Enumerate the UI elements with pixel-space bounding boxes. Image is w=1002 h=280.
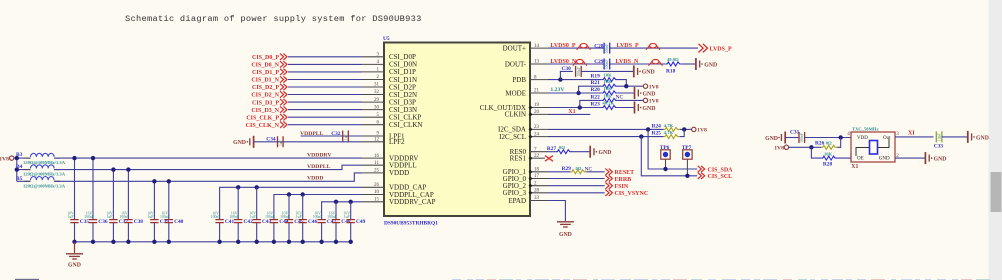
svg-text:21: 21 (534, 89, 540, 94)
svg-text:100nF: 100nF (120, 215, 130, 219)
wire SCL down to CIS_SCL (641, 137, 697, 176)
capacitor C44 (265, 211, 289, 242)
capacitor C38 (120, 170, 144, 242)
svg-text:C33: C33 (934, 143, 944, 149)
IC U5 DS90UB953TRHBRQ1 body (384, 43, 530, 217)
pin direction diamonds (529, 106, 533, 195)
svg-text:R18: R18 (666, 68, 676, 74)
svg-text:VDDDRV: VDDDRV (307, 153, 332, 159)
svg-text:25: 25 (374, 169, 380, 174)
capacitor C45 (280, 195, 304, 242)
svg-text:CIS_D0_N: CIS_D0_N (251, 63, 279, 69)
wire R25 up to 1V8 node (680, 129, 685, 136)
wire C31 to oscillator VDD (805, 137, 851, 139)
wire R23 to GND (618, 107, 634, 109)
svg-text:31: 31 (374, 83, 380, 88)
svg-text:100nF: 100nF (160, 215, 170, 219)
svg-text:C29: C29 (594, 59, 604, 65)
junction PDB branch (558, 77, 562, 81)
capacitor C40 (160, 181, 184, 242)
port CIS_SCL (698, 173, 732, 181)
svg-text:R24: R24 (652, 123, 662, 129)
svg-text:10K: 10K (604, 79, 613, 84)
svg-text:U5: U5 (383, 36, 390, 42)
svg-text:C41: C41 (225, 219, 235, 225)
svg-text:0Ω: 0Ω (559, 145, 565, 150)
svg-text:C34: C34 (266, 136, 276, 142)
resistor R20 (591, 86, 618, 95)
wire R27 to GND (572, 151, 589, 153)
svg-text:LVDS_P: LVDS_P (617, 43, 639, 49)
svg-text:C40: C40 (174, 219, 184, 225)
svg-text:CIS_D3_N: CIS_D3_N (251, 108, 279, 114)
IC right pin names (480, 44, 527, 204)
svg-text:CIS_D3_P: CIS_D3_P (252, 100, 279, 106)
svg-text:49.9Ω: 49.9Ω (667, 57, 679, 62)
svg-text:28: 28 (534, 189, 540, 194)
ground port left of C31 (765, 132, 785, 144)
svg-text:Out: Out (883, 136, 891, 141)
wire VDDPLL_CAP net (274, 195, 362, 220)
wire VDDDRV_CAP net (322, 202, 362, 220)
power port 1V8 left (0, 156, 14, 162)
capacitor C46 (295, 195, 317, 242)
svg-text:29: 29 (374, 98, 380, 103)
svg-text:CIS_SDA: CIS_SDA (708, 167, 734, 173)
svg-text:1uF: 1uF (279, 140, 283, 146)
ferrite bead B3 (16, 152, 66, 165)
wire ground bus under capacitors (75, 241, 351, 243)
svg-text:LVDS0_P: LVDS0_P (550, 43, 575, 49)
svg-text:B3: B3 (16, 152, 23, 158)
node CIS_D0_P (252, 54, 287, 61)
no connect X on RES1 (545, 156, 553, 162)
svg-text:TP7: TP7 (682, 145, 692, 151)
svg-text:VDDPLL: VDDPLL (307, 164, 331, 170)
svg-text:1uF: 1uF (147, 215, 153, 219)
capacitor C35 (67, 158, 89, 242)
svg-text:17: 17 (534, 174, 540, 179)
wire GPIO_1 with R29 (548, 171, 605, 173)
wire VDDDRV rail (54, 157, 362, 159)
wire CLKIN (548, 113, 590, 115)
svg-text:DOUT-: DOUT- (505, 60, 527, 68)
svg-text:C42: C42 (244, 219, 254, 225)
svg-text:CIS_VSYNC: CIS_VSYNC (615, 191, 649, 197)
svg-text:LVDS_P: LVDS_P (710, 46, 732, 52)
svg-text:CIS_D2_N: CIS_D2_N (251, 93, 279, 99)
svg-text:C35: C35 (80, 219, 90, 225)
svg-text:120Ω@100MHz/1.3A: 120Ω@100MHz/1.3A (23, 183, 66, 188)
svg-text:CIS_D1_N: CIS_D1_N (251, 78, 279, 84)
svg-text:1V8: 1V8 (0, 156, 9, 162)
svg-text:XI: XI (908, 131, 915, 137)
junction R24/R25 node (682, 127, 686, 131)
svg-text:20: 20 (534, 110, 540, 115)
svg-text:CIS_CLK_P: CIS_CLK_P (246, 115, 279, 121)
svg-text:3: 3 (896, 132, 899, 137)
ground symbol EPAD (557, 222, 574, 238)
node CIS_D1_N (251, 76, 287, 83)
svg-text:R25: R25 (652, 131, 662, 137)
svg-text:R23: R23 (591, 102, 601, 108)
ground port after R27 (590, 146, 611, 158)
svg-text:15: 15 (374, 198, 380, 203)
svg-text:C31: C31 (790, 130, 800, 136)
svg-text:X1: X1 (851, 164, 858, 170)
svg-text:22: 22 (534, 154, 540, 159)
oscillator pin numbers (847, 132, 899, 159)
port LVDS_P output (699, 44, 732, 53)
wire LPF1 (301, 135, 363, 137)
svg-text:40.2K: 40.2K (603, 101, 615, 106)
svg-text:1V8: 1V8 (649, 85, 659, 91)
IC right pin numbers (534, 44, 540, 201)
node CIS_D3_N (251, 106, 287, 113)
svg-text:GND: GND (559, 232, 572, 238)
wire PDB (548, 79, 602, 81)
wire MODE (548, 92, 602, 94)
left CSI differential input wires (288, 57, 362, 125)
wire oscillator GND pin (895, 157, 925, 159)
svg-text:120Ω@100MHz/1.3A: 120Ω@100MHz/1.3A (23, 172, 66, 177)
svg-text:GND: GND (976, 135, 989, 141)
svg-text:RES1: RES1 (510, 155, 527, 163)
wire CLK_OUT/IDX (548, 107, 602, 109)
ground port after C30 (634, 65, 655, 77)
svg-text:GND: GND (233, 140, 246, 146)
svg-text:CIS_CLK_N: CIS_CLK_N (246, 123, 280, 129)
diff pair marker LVDS0_P (577, 44, 591, 50)
wire I2C_SCL (548, 136, 664, 138)
wire R19 out down to R21 row (618, 80, 627, 87)
wire R21 to 1V8 (618, 85, 644, 87)
svg-text:19: 19 (534, 103, 540, 108)
port CIS_SDA (698, 166, 733, 174)
capacitor C30 (562, 66, 582, 77)
svg-text:Schematic diagram of power sup: Schematic diagram of power supply system… (125, 14, 422, 24)
svg-text:R26: R26 (815, 141, 825, 147)
wire DOUT+ to C28 (548, 47, 604, 49)
wire C33 to GND (942, 136, 967, 138)
svg-text:CIS_D1_P: CIS_D1_P (252, 70, 279, 76)
svg-text:100nF: 100nF (327, 215, 337, 219)
svg-text:24: 24 (534, 132, 540, 137)
svg-text:100nF: 100nF (229, 215, 239, 219)
svg-text:1uF: 1uF (344, 134, 348, 140)
port RESET (605, 169, 634, 177)
wire 1V8 to R26 node (789, 146, 822, 148)
ferrite bead B4 (16, 164, 66, 177)
svg-text:CSI_CLKN: CSI_CLKN (389, 121, 422, 129)
ground port after R20 (635, 87, 656, 99)
svg-text:4: 4 (847, 132, 850, 137)
svg-text:10K: 10K (604, 86, 613, 91)
wire GND to C31 (785, 137, 799, 139)
svg-text:CIS_SCL: CIS_SCL (708, 174, 733, 180)
resistor R19 (591, 72, 618, 81)
svg-text:10K: 10K (604, 93, 613, 98)
resistor R23 (591, 101, 618, 110)
svg-text:GND: GND (879, 157, 890, 162)
capacitor C49 (343, 202, 365, 242)
svg-text:1V8: 1V8 (697, 128, 707, 134)
ground port on LPF2 (233, 136, 253, 148)
svg-text:100nF: 100nF (84, 215, 94, 219)
svg-text:13: 13 (534, 60, 540, 65)
ground port after R23 (635, 102, 656, 114)
svg-text:4.7K: 4.7K (664, 123, 674, 128)
svg-text:RESET: RESET (615, 170, 635, 176)
wire R26 to VDD node (837, 138, 840, 148)
svg-text:DOUT+: DOUT+ (503, 44, 526, 52)
svg-text:TP6: TP6 (660, 145, 670, 151)
svg-text:ERRB: ERRB (615, 177, 632, 183)
svg-text:1.23V: 1.23V (550, 87, 565, 93)
junction TP7 (685, 174, 689, 178)
capacitor C47 (313, 211, 337, 242)
ground symbol below capacitor bus (66, 242, 83, 269)
svg-text:C30: C30 (562, 66, 572, 72)
svg-text:10K: 10K (604, 72, 613, 77)
svg-text:GND: GND (642, 70, 655, 76)
wire LPF2 (254, 141, 362, 143)
svg-text:VDDD: VDDD (307, 175, 323, 181)
wire DOUT- to C29 (548, 63, 604, 65)
resistor R27 (547, 145, 572, 154)
svg-text:1uF: 1uF (106, 215, 112, 219)
junction VDD node (839, 135, 843, 139)
svg-text:VDD: VDD (857, 136, 868, 141)
resistor R28 (821, 151, 837, 167)
svg-text:NC: NC (616, 94, 624, 100)
svg-text:1uF: 1uF (250, 215, 256, 219)
resistor R18 (666, 57, 682, 74)
capacitor C33 (934, 131, 944, 149)
capacitor C29 (594, 59, 609, 70)
svg-text:C28: C28 (594, 43, 604, 49)
svg-text:R20: R20 (591, 87, 601, 93)
svg-text:GND: GND (704, 62, 717, 68)
svg-text:MODE: MODE (505, 89, 526, 97)
node CIS_D1_P (252, 69, 287, 76)
power port 1V8 at I2C (692, 127, 707, 134)
IC left pin numbers (374, 53, 380, 203)
wire R28 branch (811, 147, 851, 158)
capacitor C39 (147, 181, 169, 242)
capacitor C48 (327, 202, 351, 242)
svg-text:32: 32 (374, 90, 380, 95)
IC left pin names (389, 53, 436, 206)
svg-text:0Ω: 0Ω (826, 141, 832, 146)
svg-text:10K: 10K (824, 151, 833, 156)
svg-text:1uF: 1uF (344, 215, 350, 219)
svg-text:R29: R29 (562, 166, 572, 172)
wire GPIO_3 (548, 192, 605, 194)
svg-text:C36: C36 (98, 219, 108, 225)
svg-text:GND: GND (643, 106, 656, 112)
junction VDDPLL_CAP branches (287, 192, 291, 196)
svg-text:R28: R28 (823, 161, 833, 167)
capacitor C42 (229, 187, 253, 242)
wire 1V8 feed vertical (14, 158, 31, 181)
svg-text:100nF: 100nF (313, 215, 323, 219)
junction VDDD_CAP branches (236, 185, 240, 189)
wire GPIO_2 (548, 185, 605, 187)
node CIS_CLK_N (246, 122, 287, 129)
svg-text:R27: R27 (547, 146, 557, 152)
junction TP6 (663, 167, 667, 171)
capacitor C41 (211, 211, 235, 242)
svg-text:4.7K: 4.7K (664, 130, 674, 135)
svg-text:CIS_D0_P: CIS_D0_P (252, 55, 279, 61)
wire VDDD_CAP net (220, 187, 362, 219)
wire R22 to 1V8 (618, 99, 644, 101)
junction SDA branch (646, 127, 650, 131)
svg-text:VDDD: VDDD (389, 169, 409, 177)
svg-text:GND: GND (765, 136, 778, 142)
crystal glyph inside X1 (856, 139, 889, 156)
capacitor C37 (106, 170, 128, 242)
node CIS_D0_N (251, 61, 287, 68)
wire MODE up to R21 row (579, 86, 602, 93)
junction VDDDRV_CAP branches (334, 200, 338, 204)
svg-text:C32: C32 (331, 131, 341, 137)
svg-text:R19: R19 (591, 74, 601, 80)
svg-text:10pF: 10pF (938, 133, 942, 141)
svg-text:16: 16 (374, 154, 380, 159)
port CIS_VSYNC (605, 190, 648, 198)
svg-text:GND: GND (599, 150, 612, 156)
junction 1V8 node (15, 156, 19, 160)
ground port oscillator pin2 (925, 152, 946, 164)
junction R19/R21 node (624, 84, 628, 88)
junction dots on ground bus (72, 240, 353, 244)
resistor R29 (562, 166, 593, 174)
resistor R22 (591, 93, 624, 102)
wire R18 to GND (682, 63, 695, 65)
resistor R25 (652, 130, 680, 139)
svg-text:33: 33 (534, 196, 540, 201)
diff pair marker LVDS_P (646, 44, 660, 50)
port FSIN (605, 183, 628, 191)
power port 1V8 at R21 (643, 84, 658, 91)
wire VDDD rail with elbow (54, 173, 362, 181)
node CIS_D2_P (252, 84, 287, 91)
svg-text:B5: B5 (16, 176, 23, 182)
capacitor C32 (331, 131, 348, 142)
svg-text:EPAD: EPAD (508, 197, 526, 205)
port ERRB (605, 175, 631, 183)
svg-text:1uF: 1uF (68, 215, 74, 219)
svg-text:1uF: 1uF (296, 215, 302, 219)
resistor R21 (591, 79, 618, 88)
capacitor C43 (249, 187, 271, 242)
oscillator X1 body (851, 127, 895, 170)
svg-text:OE: OE (857, 157, 864, 162)
svg-text:R21: R21 (591, 80, 601, 86)
resistor R26 (815, 141, 837, 150)
svg-text:VDDPLL: VDDPLL (300, 131, 324, 137)
ground port after C33 (968, 131, 989, 143)
junction MODE branch (576, 91, 580, 95)
svg-text:NC: NC (585, 167, 593, 173)
ferrite lead segments (25, 158, 61, 181)
IC right pin stubs (530, 48, 548, 200)
junction R26/R28 node (809, 145, 813, 149)
node CIS_D2_N (251, 91, 287, 98)
svg-text:1: 1 (850, 154, 853, 159)
junction CLK_OUT branch (578, 105, 582, 109)
svg-text:X1: X1 (568, 109, 575, 115)
wire CLK_OUT up to R22 row (580, 100, 602, 107)
scrollbar thumb (991, 172, 1002, 212)
IC left pin stubs (362, 57, 384, 202)
svg-text:I2C_SCL: I2C_SCL (499, 133, 526, 141)
svg-text:100nF: 100nF (265, 215, 275, 219)
wire Out to C33 (895, 136, 934, 138)
wire C30 to GND (581, 70, 633, 72)
wire R20 to GND (618, 92, 634, 94)
svg-text:CLKIN: CLKIN (505, 111, 526, 119)
svg-text:B4: B4 (16, 164, 23, 170)
svg-text:DS90UB953TRHBRQ1: DS90UB953TRHBRQ1 (384, 221, 438, 227)
svg-text:C46: C46 (308, 219, 318, 225)
svg-text:C38: C38 (134, 219, 144, 225)
diff pair marker LVDS0_N (573, 59, 587, 65)
ground port after R18 (696, 58, 717, 70)
svg-text:10: 10 (374, 190, 380, 195)
junction SCL branch (639, 134, 643, 138)
svg-text:GND: GND (643, 91, 656, 97)
svg-text:LVDS_N: LVDS_N (616, 59, 639, 65)
svg-text:100nF: 100nF (211, 215, 221, 219)
svg-text:100nF: 100nF (605, 44, 609, 54)
test point TP7 (682, 145, 692, 176)
capacitor C34 (266, 136, 283, 147)
capacitor C31 (790, 130, 805, 143)
bottom clipped text row (15, 279, 990, 280)
svg-text:R22: R22 (591, 94, 601, 100)
svg-text:12: 12 (374, 138, 380, 143)
svg-text:14: 14 (534, 44, 540, 49)
svg-text:LVDS0_N: LVDS0_N (550, 59, 576, 65)
svg-text:PDB: PDB (512, 76, 526, 84)
svg-text:TXC_50MHz: TXC_50MHz (852, 127, 879, 132)
test point TP6 (660, 145, 670, 169)
scrollbar track (989, 0, 1002, 280)
svg-text:26: 26 (374, 183, 380, 188)
svg-text:100nF: 100nF (280, 215, 290, 219)
svg-text:30: 30 (374, 105, 380, 110)
svg-text:CIS_D2_P: CIS_D2_P (252, 85, 279, 91)
svg-text:100nF: 100nF (800, 133, 804, 143)
svg-text:C49: C49 (356, 219, 366, 225)
wire C28 to LVDS_P connector (610, 47, 698, 49)
node CIS_CLK_P (246, 114, 287, 121)
svg-text:100nF: 100nF (605, 60, 609, 70)
ferrite bead B5 (16, 176, 66, 188)
capacitor C36 (84, 158, 108, 242)
svg-text:100nF: 100nF (577, 67, 581, 77)
wire R24 to 1V8 (680, 128, 692, 130)
svg-text:11: 11 (374, 161, 379, 166)
svg-text:FSIN: FSIN (615, 184, 629, 190)
svg-text:GND: GND (68, 263, 81, 269)
capacitor C28 (594, 43, 609, 54)
svg-text:0Ω: 0Ω (576, 166, 582, 171)
svg-text:LPF2: LPF2 (389, 138, 405, 146)
